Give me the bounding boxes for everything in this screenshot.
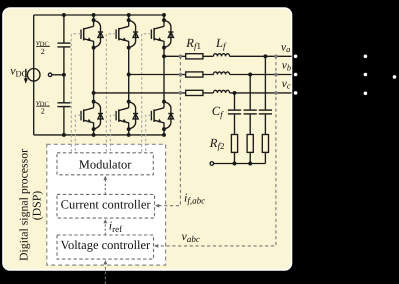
label DSP rotated	[16, 149, 43, 261]
inductor Lf phase b	[213, 72, 229, 75]
nodes leg 3 junctions	[162, 13, 166, 137]
wire filter column b	[249, 75, 251, 164]
dashed link current to modulator	[104, 179, 106, 194]
label vDC/2 top	[36, 37, 50, 56]
capacitor Cf phase a	[259, 110, 272, 114]
inductor Lf phase c	[213, 90, 229, 93]
wire bottom DC rail	[34, 134, 164, 136]
converter cream background panel	[3, 8, 292, 270]
arrow vabc into voltage controller	[154, 244, 159, 248]
resistor Rf1 phase a	[186, 54, 203, 59]
svg-text:(DSP): (DSP)	[29, 191, 43, 221]
node grid c	[364, 92, 368, 96]
svg-text:Modulator: Modulator	[79, 158, 133, 172]
gray node v a	[274, 55, 278, 59]
node phase c tap	[92, 91, 96, 95]
current controller box	[57, 194, 155, 218]
wire gate drive T4 dashed	[110, 115, 116, 152]
transistor T5 upper leg3	[151, 20, 173, 47]
node grid neutral	[393, 75, 397, 79]
voltage source vDC	[27, 69, 40, 82]
voltage controller box	[57, 235, 154, 259]
leg 1 vertical wires	[93, 15, 95, 135]
wire phase b	[129, 74, 292, 76]
node column a tap	[263, 54, 267, 58]
dashed vref input from below	[104, 264, 106, 284]
node terminal vb	[294, 73, 298, 77]
wire gate drive T5 dashed	[142, 34, 152, 153]
node phase a tap	[162, 54, 166, 58]
nodes leg 1 junctions	[92, 13, 96, 137]
gray node if a	[179, 55, 183, 59]
wire DC-link capacitor branch	[63, 15, 65, 135]
gray node if b	[179, 73, 183, 77]
resistor Rf2 phase a	[262, 135, 268, 153]
capacitor Cf phase c	[228, 110, 241, 114]
svg-text:vb: vb	[282, 60, 291, 73]
DSP outer dashed box	[47, 144, 166, 265]
node cap top rail	[62, 13, 66, 17]
node terminal vc	[294, 91, 298, 95]
vDC arrow	[24, 69, 28, 84]
capacitor Cdc bottom	[57, 103, 70, 107]
wire left DC branch	[33, 15, 35, 135]
svg-text:Digital signal processor: Digital signal processor	[16, 149, 30, 261]
node star a	[233, 162, 237, 166]
resistor Rf2 phase b	[247, 135, 253, 153]
leg 3 vertical wires	[163, 15, 165, 135]
transistor T3 upper leg2	[116, 20, 138, 47]
arrow if into current controller	[155, 204, 160, 208]
svg-text:Voltage controller: Voltage controller	[61, 238, 152, 252]
inductor Lf phase a	[213, 54, 229, 57]
wire filter star point	[214, 163, 266, 165]
svg-text:va: va	[281, 41, 290, 54]
node grid a	[364, 55, 368, 59]
resistor Rf1 phase b	[186, 72, 203, 77]
node midpoint caps	[62, 73, 66, 77]
nodes leg 2 junctions	[127, 13, 131, 137]
gray node if c	[179, 91, 183, 95]
svg-text:Current controller: Current controller	[61, 198, 152, 212]
wire filter column a	[264, 56, 266, 163]
wire gate drive T1 dashed	[71, 34, 81, 153]
leg 2 vertical wires	[128, 15, 130, 135]
modulator box	[57, 153, 153, 175]
wire phase a	[164, 55, 292, 57]
node star b	[248, 162, 252, 166]
wire filter column c	[234, 93, 236, 164]
gray node v b	[274, 73, 278, 77]
transistor T2 lower leg1	[81, 102, 103, 130]
node cap bottom rail	[62, 133, 66, 137]
node grid b	[364, 73, 368, 77]
transistor T4 lower leg2	[116, 102, 138, 130]
capacitor Cf phase b	[244, 110, 257, 114]
neutral terminal filter	[210, 162, 214, 166]
arrow into current controller	[103, 219, 107, 223]
capacitor Cdc top	[57, 43, 70, 47]
arrow into voltage controller	[104, 260, 108, 264]
wire gate drive T2 dashed	[75, 115, 81, 152]
wire top DC rail	[34, 14, 164, 16]
measurement line if dashed	[158, 56, 181, 205]
svg-text:2: 2	[41, 47, 45, 56]
resistor Rf1 phase c	[186, 90, 203, 95]
arrow into modulator	[103, 176, 107, 180]
measurement line vabc dashed	[157, 56, 276, 246]
node terminal va	[294, 55, 298, 59]
neutral terminal o	[48, 73, 52, 77]
svg-text:2: 2	[41, 107, 45, 116]
wire neutral to midpoint	[52, 74, 64, 76]
dashed link voltage to current	[104, 222, 106, 235]
wire gate drive T3 dashed	[106, 34, 116, 153]
wire gate drive T6 dashed	[146, 115, 152, 152]
wire phase c	[94, 92, 292, 94]
resistor Rf2 phase c	[231, 135, 237, 153]
node column b tap	[248, 73, 252, 77]
svg-text:vc: vc	[282, 78, 291, 91]
label vDC/2 bottom	[36, 97, 50, 116]
transistor T1 upper leg1	[81, 20, 103, 47]
node column c tap	[233, 91, 237, 95]
node phase b tap	[127, 73, 131, 77]
transistor T6 lower leg3	[151, 102, 173, 130]
gray node v c	[274, 91, 278, 95]
